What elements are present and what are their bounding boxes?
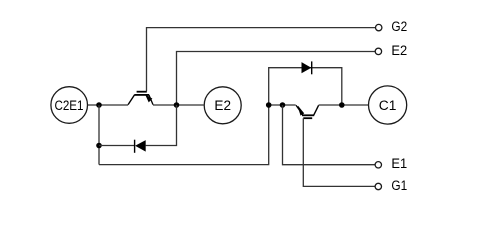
terminal E2 pin circle xyxy=(375,48,381,54)
terminal C2E1 circle xyxy=(51,87,88,124)
diode D1 (freewheel for Q1, pointing right) xyxy=(302,61,312,74)
wire bottom rail from C2E1 branch to Q1 emitter column xyxy=(99,105,269,165)
wire G2 run: from Q2 gate up and across to G2 terminal xyxy=(147,28,376,92)
svg-text:E2: E2 xyxy=(214,98,231,113)
Q1 emitter diagonal xyxy=(296,105,303,115)
wire Q1 collector to C1 xyxy=(319,104,369,106)
wire C2E1 node down to bottom rail xyxy=(98,105,100,165)
terminal G1 pin circle xyxy=(375,183,381,189)
terminal G2 pin circle xyxy=(376,24,382,30)
svg-text:E1: E1 xyxy=(391,156,407,171)
node junction at E1 tap xyxy=(280,102,286,108)
wire D1 top row xyxy=(269,68,342,105)
wire E2 run: from main wire node up and across to E2 terminal xyxy=(177,52,376,106)
D1 cathode bar xyxy=(311,61,313,74)
wire D2 row: anode side up to Q2 emitter node xyxy=(146,105,177,146)
node junction at D1 cathode return xyxy=(339,102,345,108)
svg-text:E2: E2 xyxy=(391,43,407,58)
Q1 gate bar xyxy=(303,117,312,119)
node junction at Q2 emitter / E2 tap / D2 return xyxy=(174,102,180,108)
node junction at Q1 emitter / D1 / bottom rail xyxy=(266,102,272,108)
wire E1 run: from E1 tap node down and across to E1 terminal xyxy=(283,105,375,165)
D2 triangle xyxy=(135,140,146,152)
svg-text:G2: G2 xyxy=(391,19,407,34)
terminal C1 circle xyxy=(369,86,407,124)
node junction at C2E1 branch xyxy=(96,102,102,108)
Q1 body bar xyxy=(302,114,314,116)
transistor Q2 (IGBT, gate from top, collector left, emitter right) xyxy=(128,92,153,105)
wire D2 row: cathode side xyxy=(99,145,135,147)
wire main run into Q1 emitter xyxy=(269,104,296,106)
diode D2 (freewheel for Q2, pointing left) xyxy=(135,140,146,153)
Q1 collector diagonal xyxy=(314,105,319,115)
Q2 emitter arrow xyxy=(146,95,152,102)
node junction at D2 cathode branch xyxy=(96,143,102,149)
Q2 body bar xyxy=(134,94,149,96)
wire from Q2 emitter to E2 main circle xyxy=(153,104,204,106)
wire G1 run: from Q1 gate down and across to G1 terminal xyxy=(303,118,375,186)
D2 cathode bar xyxy=(134,140,136,153)
Q2 collector diagonal xyxy=(128,95,134,105)
svg-text:C2E1: C2E1 xyxy=(54,98,83,113)
Q2 emitter diagonal xyxy=(149,95,153,105)
transistor Q1 (IGBT, gate from bottom, emitter left, collector right) xyxy=(296,105,319,118)
svg-text:G1: G1 xyxy=(391,178,407,193)
Q2 gate bar xyxy=(137,91,147,93)
D1 triangle xyxy=(302,62,312,73)
terminal E2 main circle xyxy=(204,87,241,124)
svg-text:C1: C1 xyxy=(379,98,397,113)
Q1 emitter arrow xyxy=(298,106,304,115)
terminal E1 pin circle xyxy=(375,162,381,168)
wire from C2E1 to Q2 collector xyxy=(88,104,128,106)
